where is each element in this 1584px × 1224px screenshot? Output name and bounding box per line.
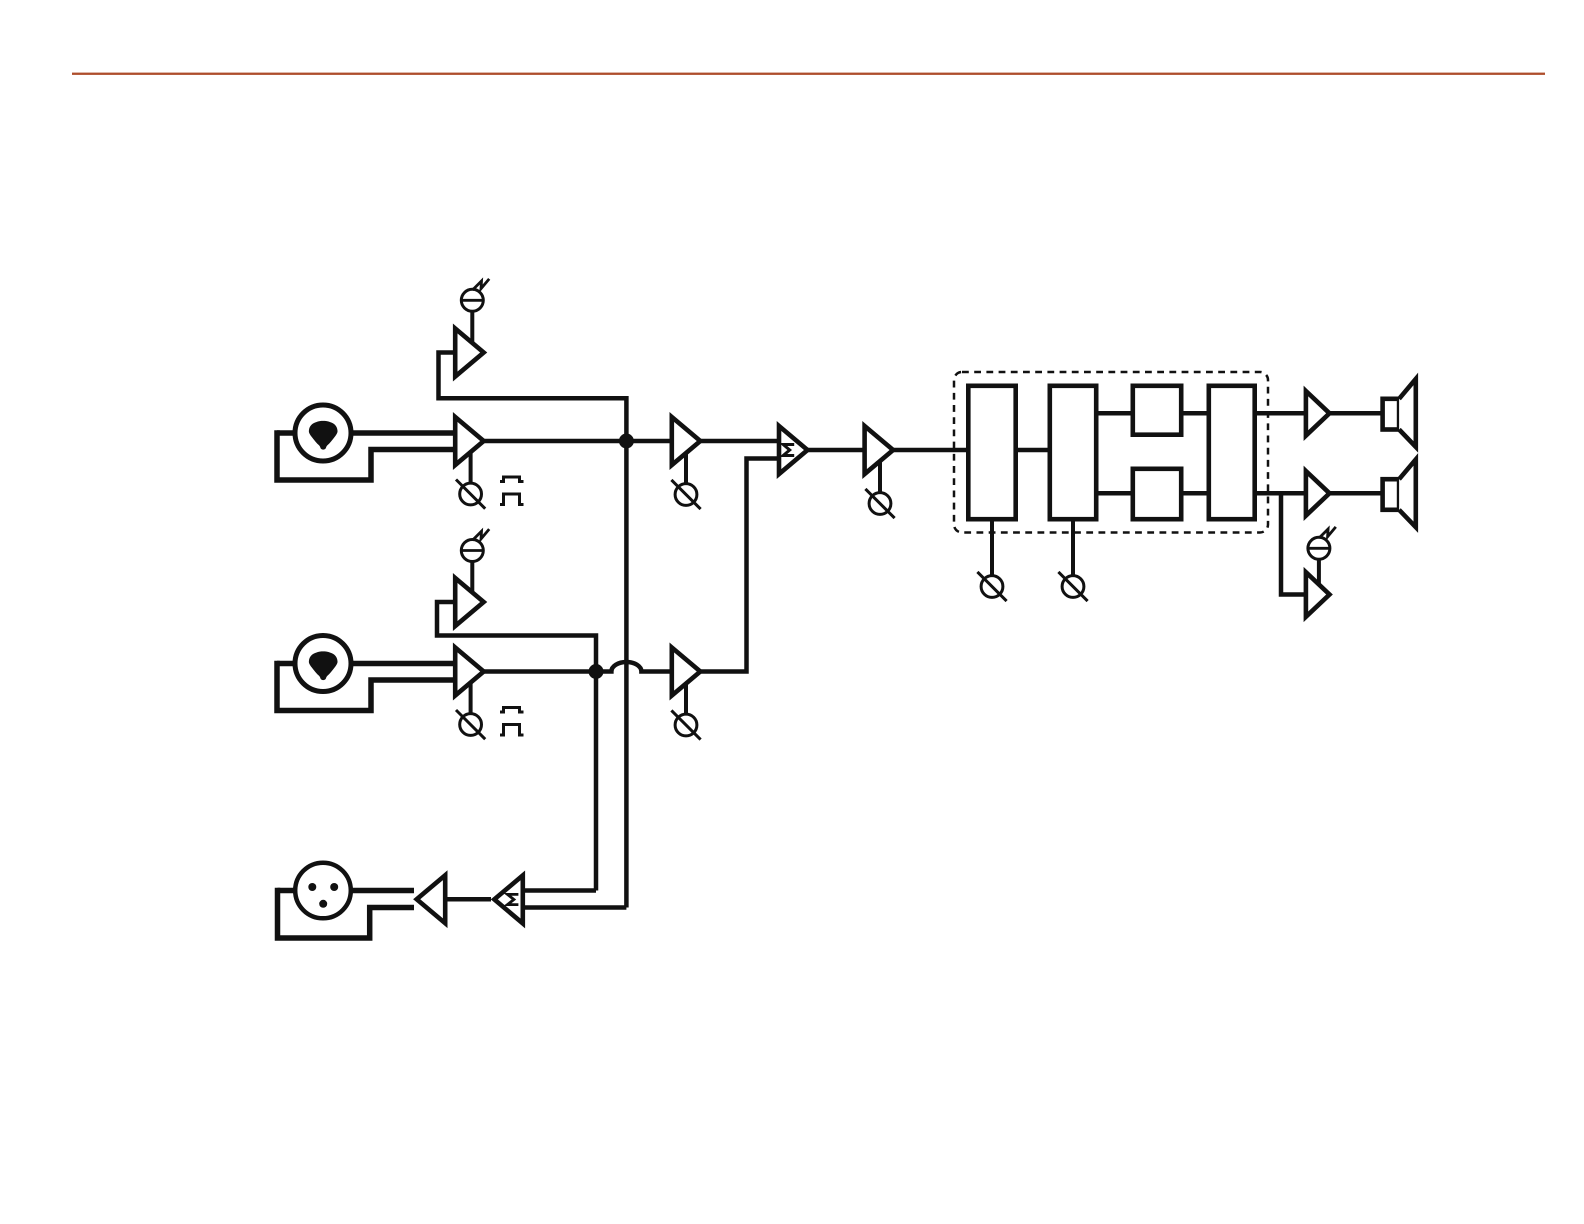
wire: B2 to B4	[1097, 491, 1135, 496]
XLR pin 2	[330, 883, 338, 891]
pot P6 level channel 2	[675, 714, 697, 736]
node: channel 1 junction	[619, 434, 634, 449]
DSP block B4 (low band)	[1133, 469, 1181, 519]
pot P4 gain channel 2	[460, 714, 482, 736]
wire: channel 1 feed into output sum	[522, 905, 626, 910]
pot P9 DSP control 2	[1062, 576, 1084, 598]
DSP block B2	[1050, 386, 1096, 519]
low-cut pulse symbol channel 1	[500, 477, 524, 482]
orange header rule	[72, 73, 1545, 75]
summing amp U1 (sigma)	[779, 426, 808, 474]
connector J1 mic/line input 1 (combo jack circle)	[295, 405, 351, 461]
pot P10 monitor level (circle with line and arrow)	[1308, 537, 1330, 559]
op-amp A1 input amp channel 1	[455, 417, 484, 465]
pot P8 DSP control 1	[981, 576, 1003, 598]
wire: mic input 2 connector top conductor	[277, 661, 456, 667]
pot P1 gain channel 1 (circle with slash)	[460, 483, 482, 505]
op-amp A8 HF power amp	[1306, 391, 1330, 436]
wire: HF amp to tweeter	[1326, 411, 1383, 416]
wire: branch to monitor amp	[1281, 493, 1307, 594]
op-amp A5 aux amp channel 2	[455, 578, 484, 626]
wire: aux feed channel 2 and vertical feed to output sum	[437, 602, 596, 891]
wire: B3 to B5	[1182, 411, 1211, 416]
mic capsule icon in J1	[309, 421, 338, 450]
XLR pin 3	[319, 900, 327, 908]
pot P2 aux send level channel 1 (circle with line and arrow)	[461, 289, 483, 311]
wire: master amp to DSP	[890, 448, 967, 453]
wire: stem from A6 to level pot P6	[684, 683, 688, 715]
wire: channel 2 feed into output sum	[522, 888, 596, 893]
speaker LS1 tweeter	[1383, 399, 1400, 430]
wire: channel 2 bus line with crossover hop	[484, 662, 673, 672]
connector J2 mic/line input 2 (combo jack circle)	[295, 636, 351, 692]
sigma label U2	[507, 894, 518, 904]
wire: LF amp to woofer	[1326, 491, 1383, 496]
node: channel 2 junction	[589, 664, 604, 679]
XLR pin 1	[308, 883, 316, 891]
op-amp A10 monitor amp	[1306, 572, 1330, 617]
pot P7 master level	[869, 493, 891, 515]
wire: stem from A1 to gain pot P1	[469, 451, 473, 484]
mic capsule icon in J2	[309, 651, 338, 680]
wire: stem from pot P10 into amp A10	[1317, 559, 1321, 586]
wire: mic input 1 connector top conductor	[277, 430, 456, 436]
sigma label U1	[783, 445, 794, 456]
wire: stem from B1 to pot P8	[990, 519, 994, 576]
wire: mic input 2 connector loop conductor	[277, 661, 456, 711]
connector J3 XLR mix output	[295, 863, 351, 919]
DSP block B3 (high band)	[1133, 386, 1181, 435]
op-amp A7 master amp	[865, 426, 894, 474]
wire: channel 2 riser to summing amp	[700, 459, 780, 672]
wire: channel 1 bus line	[484, 439, 673, 444]
op-amp A6 fader amp channel 2	[672, 648, 701, 696]
op-amp A9 LF power amp	[1306, 471, 1330, 516]
summing amp U2 (sigma, mix out)	[494, 875, 523, 923]
pot P5 aux send level channel 2	[461, 540, 483, 562]
wire: B4 to B5	[1182, 491, 1211, 496]
wire: DSP low output to LF amp	[1255, 491, 1307, 496]
wire: stem from A4 to gain pot P4	[469, 682, 473, 715]
wire: aux feed channel 1 and vertical feed to output sum	[439, 353, 627, 908]
wire: XLR output connector top conductor	[278, 888, 415, 894]
op-amp A4 input amp channel 2	[455, 648, 484, 696]
wire: sum to master amp	[804, 448, 865, 453]
wire: stem from A7 to master pot P7	[878, 461, 882, 493]
op-amp A3 fader amp channel 1	[672, 417, 701, 465]
wire: channel 1 to summing amp	[700, 439, 780, 444]
wire: B1 to B2	[1016, 448, 1051, 453]
DSP block B5 (limiter)	[1209, 386, 1255, 519]
op-amp A2 aux amp channel 1	[455, 329, 484, 377]
low-cut pulse symbol channel 2	[500, 708, 524, 713]
wire: stem from B2 to pot P9	[1071, 519, 1075, 576]
wire: stem from A3 to level pot P3	[684, 452, 688, 484]
wire: B2 to B3	[1097, 411, 1135, 416]
wire: stem from pot P2 into amp A2	[470, 311, 474, 344]
op-amp A11 line output driver	[417, 875, 446, 923]
wire: DSP high output to HF amp	[1255, 411, 1307, 416]
DSP block dashed enclosure	[954, 372, 1268, 533]
DSP block B1	[968, 386, 1015, 519]
wire: mic input 1 connector loop conductor	[277, 430, 456, 480]
wire: stem from pot P5 into amp A5	[470, 562, 474, 594]
wire: XLR output connector loop conductor	[278, 888, 415, 938]
pot P3 level channel 1	[675, 484, 697, 506]
speaker LS2 woofer	[1383, 479, 1400, 510]
wire: sum to output driver	[445, 897, 491, 902]
